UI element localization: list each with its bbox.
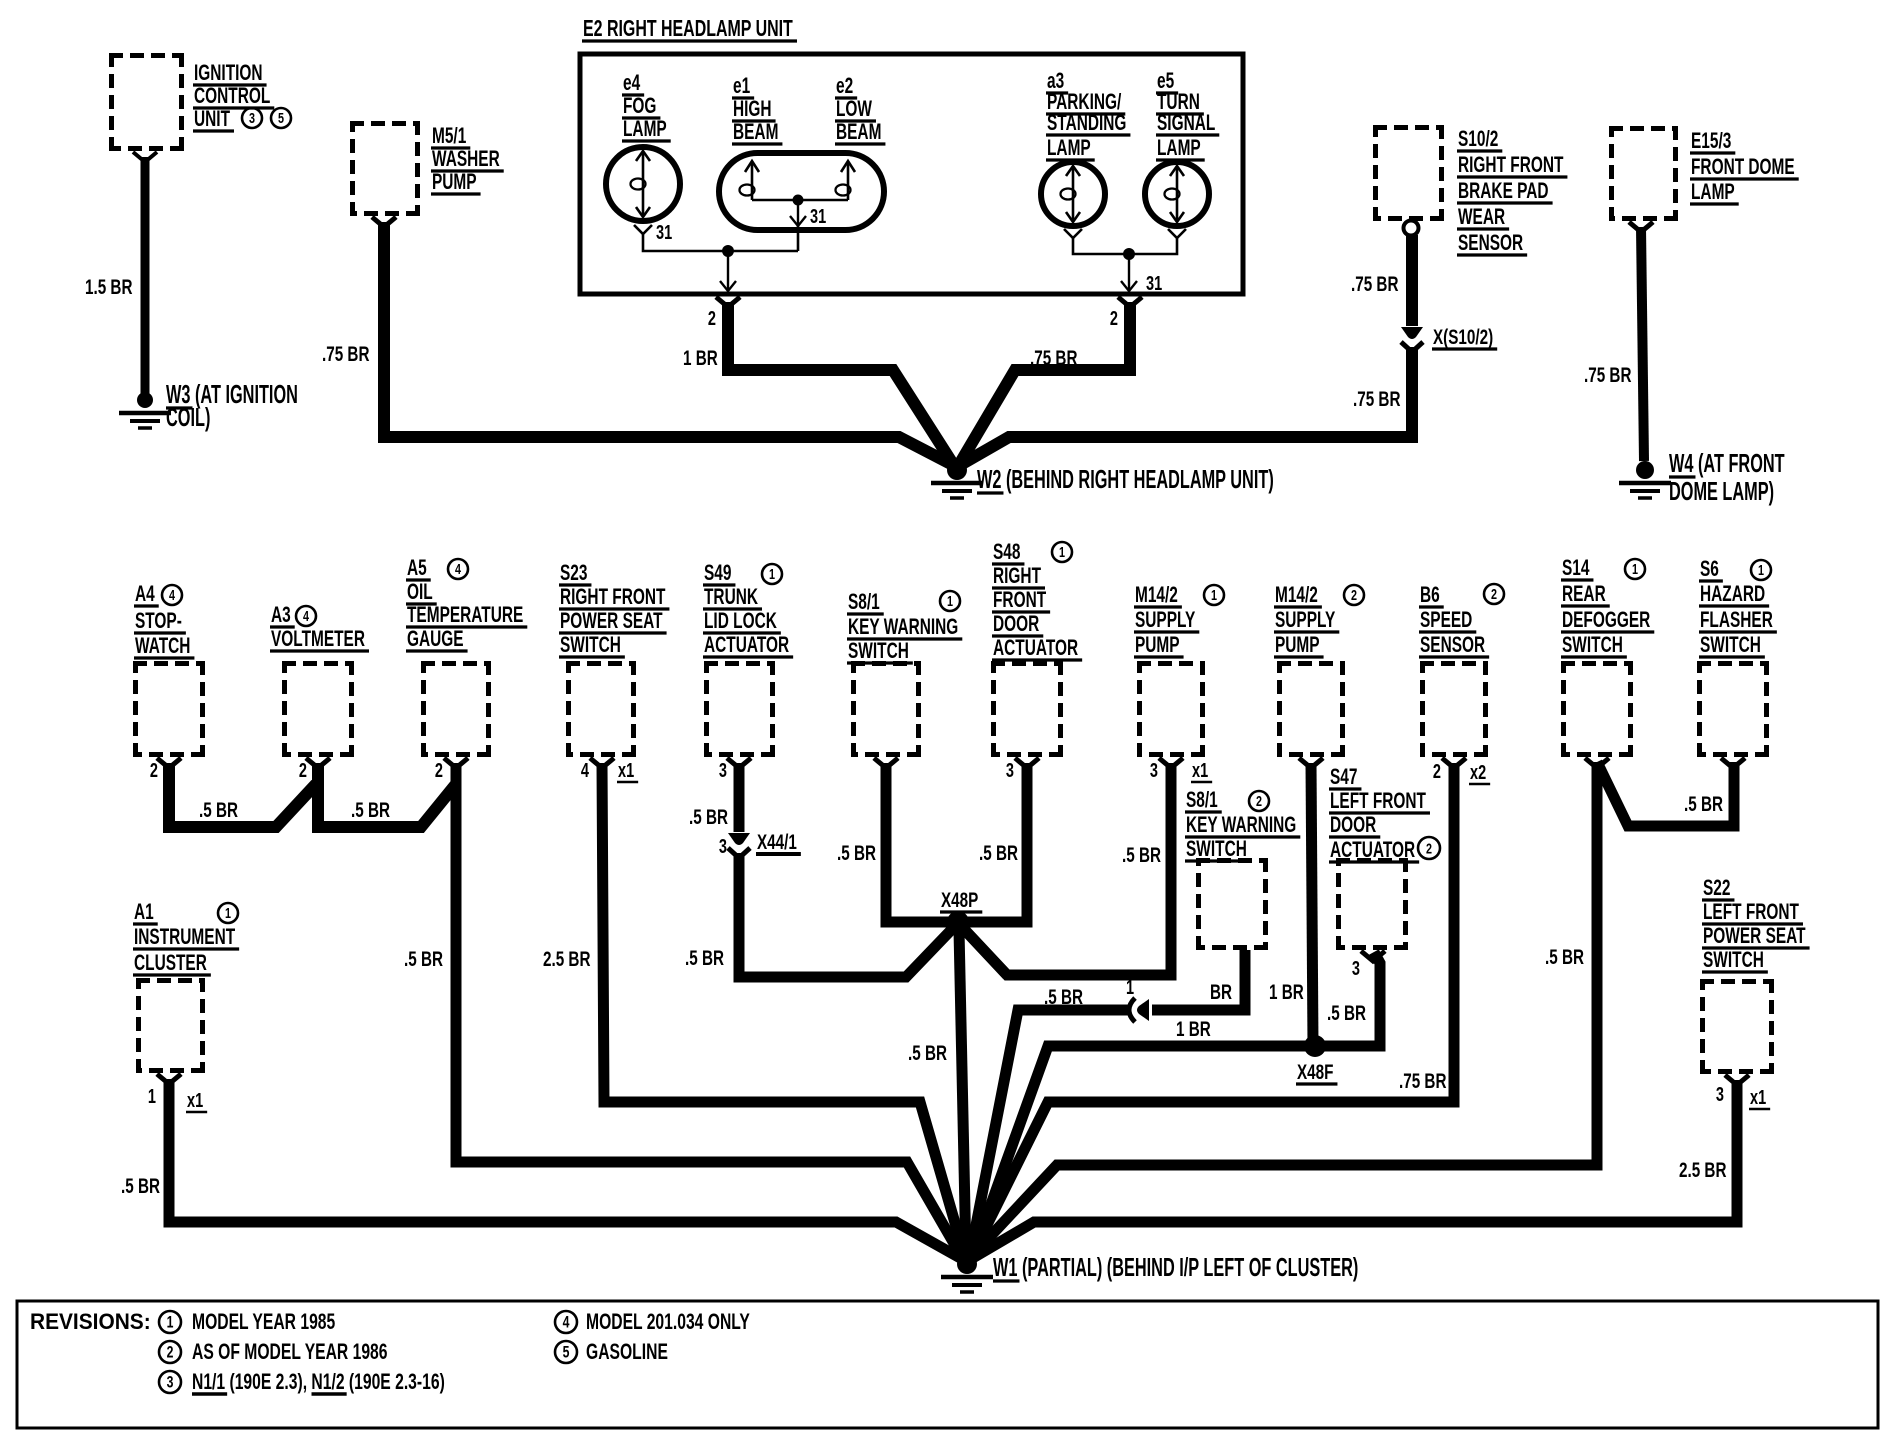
arrow right junction to pin 2, terminal 31 [1121,254,1137,291]
arrow fog junction to pin 2 [720,251,736,291]
component box S10/2 right front brake pad wear sensor [1373,125,1444,221]
svg-text:POWER SEAT: POWER SEAT [1703,924,1806,948]
label e4 fog lamp [622,71,671,141]
lamp e5 turn signal lamp [1145,162,1209,226]
svg-text:BEAM: BEAM [836,120,881,144]
svg-text:LAMP: LAMP [1157,136,1201,160]
label S49 trunk lid lock actuator [703,561,793,657]
svg-text:SWITCH: SWITCH [1562,633,1623,657]
svg-text:SENSOR: SENSOR [1458,231,1523,255]
svg-text:BRAKE PAD: BRAKE PAD [1458,179,1549,203]
revision legend 2 [159,1341,181,1363]
svg-text:CONTROL: CONTROL [194,84,271,108]
component box E15/3 front dome lamp [1609,126,1678,221]
svg-text:VOLTMETER: VOLTMETER [271,627,365,651]
svg-text:.5 BR: .5 BR [1684,792,1723,816]
svg-text:WEAR: WEAR [1458,205,1505,229]
svg-text:1: 1 [1758,561,1764,578]
svg-text:X48F: X48F [1297,1060,1333,1084]
wire A1 to W1, .5 BR [169,1079,962,1259]
pin connector A1 pin 1 [157,1074,181,1084]
svg-text:.5 BR: .5 BR [404,947,443,971]
pin connector E15/3 pin [1629,222,1653,232]
arrow beam junction 31 [790,200,806,226]
label S23 right front power seat switch [559,561,669,657]
revision mark 2 (S8/1 lower) [1249,791,1269,811]
pin connector S8/1 pin [874,758,898,768]
svg-text:S47: S47 [1330,765,1357,789]
svg-text:X44/1: X44/1 [757,830,797,854]
wire S49 lower .5 BR to X48P [739,853,955,977]
wire S22 to W1, 2.5 BR [971,1080,1737,1259]
pin connector S49 pin 3 [727,758,751,768]
svg-text:INSTRUMENT: INSTRUMENT [134,925,235,949]
label S14 rear defogger switch [1561,556,1654,657]
component box S6 hazard flasher switch [1697,661,1769,757]
svg-text:.75 BR: .75 BR [322,342,369,366]
pin connector M5/1 pin [372,217,396,227]
svg-text:S8/1: S8/1 [848,590,880,614]
component box A1 instrument cluster [136,978,205,1073]
label M5/1 washer pump [431,124,504,194]
revision legend 1 [159,1311,181,1333]
wire M14/2(1) to X48P, .5 BR [962,763,1171,975]
svg-text:S10/2: S10/2 [1458,127,1498,151]
svg-text:DOME LAMP): DOME LAMP) [1669,476,1774,506]
svg-text:E15/3: E15/3 [1691,129,1731,153]
svg-text:2: 2 [1351,586,1357,603]
svg-text:SPEED: SPEED [1420,608,1472,632]
svg-text:31: 31 [810,205,826,228]
revision mark 2 (M14/2 no.2) [1344,585,1364,605]
svg-text:LEFT FRONT: LEFT FRONT [1703,900,1799,924]
pin connector S22 pin 3 [1725,1075,1749,1085]
revision mark 4 (A3) [296,606,316,626]
terminal circle S10/2 [1404,221,1419,236]
revision mark 3 (N1) [242,108,262,128]
svg-text:4: 4 [581,759,589,782]
svg-text:ACTUATOR: ACTUATOR [993,636,1078,660]
svg-text:4: 4 [563,1314,570,1332]
wire M14/2(2) to X48F, 1 BR [1311,763,1313,1046]
wire fog lamp to junction [643,234,798,251]
revision mark 1 (S49) [762,564,782,584]
label e5 turn signal lamp [1156,69,1219,160]
svg-text:4: 4 [303,607,310,624]
svg-text:1: 1 [1126,976,1134,999]
svg-text:S22: S22 [1703,876,1730,900]
svg-text:1 BR: 1 BR [683,346,718,370]
svg-text:.5 BR: .5 BR [689,805,728,829]
label S47 left front door actuator [1329,765,1430,862]
svg-text:3: 3 [167,1374,174,1392]
svg-text:RIGHT FRONT: RIGHT FRONT [1458,153,1564,177]
svg-text:.5 BR: .5 BR [121,1174,160,1198]
junction dot right lamps [1123,248,1135,260]
svg-text:S48: S48 [993,540,1020,564]
svg-text:X(S10/2): X(S10/2) [1433,325,1493,349]
wire X48F to W1, 1 BR [972,1046,1315,1257]
svg-text:E2 RIGHT HEADLAMP UNIT: E2 RIGHT HEADLAMP UNIT [583,16,793,42]
svg-text:1: 1 [167,1314,174,1332]
svg-text:.5 BR: .5 BR [1044,985,1083,1009]
wire E2 parking/turn ground .75 BR [960,302,1130,463]
svg-text:B6: B6 [1420,583,1440,607]
revision mark 1 (A1) [218,903,238,923]
wire parking/turn to junction [1073,238,1177,254]
wire beam junction down [797,226,800,251]
svg-text:SWITCH: SWITCH [1700,633,1761,657]
svg-text:W2 (BEHIND RIGHT HEADLAMP UNIT: W2 (BEHIND RIGHT HEADLAMP UNIT) [977,464,1274,494]
svg-text:2: 2 [1256,792,1262,809]
svg-text:DEFOGGER: DEFOGGER [1562,608,1651,632]
svg-text:2: 2 [299,759,307,782]
svg-text:e4: e4 [623,71,641,95]
ground W1 [941,1254,993,1292]
lamp e1/e2 high-low beam unit [719,153,884,230]
svg-text:PUMP: PUMP [432,170,477,194]
connector 1 (inline horizontal) [1129,998,1149,1022]
svg-text:FRONT: FRONT [993,588,1046,612]
svg-text:IGNITION: IGNITION [194,61,263,85]
revision mark 1 (S48) [1052,542,1072,562]
component box S23 right front power seat switch [566,661,636,757]
wire S8/1 to X48P, .5 BR [886,763,950,922]
wire N1 to W3, 1.5 BR [141,157,150,396]
svg-text:5: 5 [278,109,284,126]
lamp a3 parking lamp [1041,162,1105,226]
label e2 low beam [835,74,885,144]
component box A5 oil temperature gauge [421,661,491,757]
svg-text:x1: x1 [1750,1086,1766,1109]
svg-text:DOOR: DOOR [993,612,1040,636]
pin connector S23 pin 4 [590,758,614,768]
wire S23 to W1, 2.5 BR [602,763,964,1254]
label S6 hazard flasher switch [1699,557,1777,657]
wire S10/2 lower .75 BR to W2 [962,347,1412,464]
svg-text:WATCH: WATCH [135,634,190,658]
svg-text:N1/1 (190E 2.3), N1/2 (190E 2.: N1/1 (190E 2.3), N1/2 (190E 2.3-16) [192,1371,445,1395]
svg-text:.5 BR: .5 BR [908,1041,947,1065]
svg-text:REVISIONS:: REVISIONS: [30,1310,151,1335]
headlamp unit box E2 [580,54,1243,294]
svg-text:GAUGE: GAUGE [407,627,464,651]
svg-text:.75 BR: .75 BR [1584,363,1631,387]
svg-text:2: 2 [708,307,716,330]
svg-text:1: 1 [1632,560,1638,577]
svg-text:31: 31 [1146,272,1162,295]
svg-text:FRONT DOME: FRONT DOME [1691,155,1795,179]
svg-text:HIGH: HIGH [733,97,772,121]
label A5 oil temperature gauge [406,556,527,651]
revision mark 2 (S47) [1418,837,1440,859]
wire S47 to X48F, .5 BR [1322,952,1380,1046]
svg-text:LOW: LOW [836,97,872,121]
svg-text:.5 BR: .5 BR [1545,945,1584,969]
svg-text:RIGHT: RIGHT [993,564,1041,588]
label S8/1 key warning switch (2) [1185,788,1300,861]
svg-text:W1 (PARTIAL) (BEHIND I/P LEFT: W1 (PARTIAL) (BEHIND I/P LEFT OF CLUSTER… [993,1252,1358,1282]
svg-text:HAZARD: HAZARD [1700,582,1765,606]
svg-text:STANDING: STANDING [1047,111,1126,135]
svg-text:2: 2 [435,759,443,782]
wire X48P branch to S8-1(2) line [962,927,1007,975]
svg-text:S23: S23 [560,561,587,585]
label S10/2 right front brake pad wear sensor [1457,127,1567,255]
component box M14/2 supply pump (2) [1277,661,1345,757]
svg-text:MODEL 201.034 ONLY: MODEL 201.034 ONLY [586,1311,750,1335]
svg-text:BEAM: BEAM [733,120,778,144]
svg-text:A3: A3 [271,603,291,627]
ground W3 [119,392,171,428]
svg-text:S6: S6 [1700,557,1719,581]
pin connector E2 left pin 2 [716,297,740,307]
svg-text:2: 2 [1110,307,1118,330]
label a3 parking/standing lamp [1046,69,1130,160]
svg-text:A1: A1 [134,900,154,924]
connector X44/1 [728,833,750,858]
svg-text:1 BR: 1 BR [1269,980,1304,1004]
label E15/3 front dome lamp [1690,129,1799,204]
svg-text:KEY WARNING: KEY WARNING [848,615,958,639]
svg-text:AS OF MODEL YEAR 1986: AS OF MODEL YEAR 1986 [192,1341,388,1365]
terminal chevron fog terminal 31 [634,225,652,234]
svg-text:.5 BR: .5 BR [837,841,876,865]
component box S8/1 key warning switch (2) [1196,858,1268,950]
svg-text:4: 4 [169,586,176,603]
svg-text:.5 BR: .5 BR [199,798,238,822]
svg-text:TEMPERATURE: TEMPERATURE [407,603,523,627]
svg-text:COIL): COIL) [166,402,210,432]
svg-text:A5: A5 [407,556,427,580]
svg-text:e2: e2 [836,74,853,98]
svg-text:.5 BR: .5 BR [979,841,1018,865]
svg-text:1: 1 [1059,543,1065,560]
component box S22 left front power seat switch [1700,979,1774,1074]
svg-text:1 BR: 1 BR [1176,1017,1211,1041]
svg-text:SUPPLY: SUPPLY [1275,608,1336,632]
svg-text:2: 2 [167,1344,174,1362]
label M14/2 supply pump (2) [1274,583,1339,657]
svg-text:.75 BR: .75 BR [1030,346,1077,370]
svg-text:WASHER: WASHER [432,147,500,171]
svg-text:M14/2: M14/2 [1135,583,1178,607]
label S22 left front power seat switch [1702,876,1810,972]
component box A3 voltmeter [282,661,354,757]
svg-text:2.5 BR: 2.5 BR [543,947,590,971]
wire M5/1 to W2, .75 BR [384,222,951,464]
svg-text:31: 31 [656,221,672,244]
terminal chevron parking terminal [1064,229,1082,238]
svg-text:LEFT FRONT: LEFT FRONT [1330,789,1426,813]
svg-text:KEY WARNING: KEY WARNING [1186,813,1296,837]
revision legend 4 [555,1311,577,1333]
svg-text:LID LOCK: LID LOCK [704,609,777,633]
svg-text:x1: x1 [187,1089,203,1112]
svg-text:2: 2 [150,759,158,782]
svg-text:PUMP: PUMP [1135,633,1180,657]
svg-text:CLUSTER: CLUSTER [134,951,207,975]
svg-text:SENSOR: SENSOR [1420,633,1485,657]
wire S10/2 upper .75 BR [1406,235,1418,326]
label S48 right front door actuator [992,540,1082,660]
svg-text:.5 BR: .5 BR [1122,843,1161,867]
svg-text:TRUNK: TRUNK [704,585,758,609]
svg-text:1: 1 [225,904,231,921]
wire S8/1(2) to connector 1, BR [1152,950,1245,1010]
svg-text:x1: x1 [1192,759,1208,782]
svg-text:LAMP: LAMP [1691,180,1735,204]
svg-text:1: 1 [148,1085,156,1108]
svg-text:x1: x1 [618,759,634,782]
revision mark 1 (S6) [1751,560,1771,580]
svg-text:2: 2 [1426,840,1432,857]
node X48P [947,911,969,933]
svg-text:x2: x2 [1470,761,1486,784]
pin connector S48 pin 3 [1015,758,1039,768]
label A3 voltmeter [270,603,369,651]
ground W2 [931,460,983,498]
pin connector S47 pin 3 [1361,951,1385,961]
pin connector M14/2(1) pin 3 [1159,758,1183,768]
pin connector A4 pin 2 [157,758,181,768]
component box M14/2 supply pump (1) [1137,661,1205,757]
svg-text:3: 3 [249,109,255,126]
svg-text:SWITCH: SWITCH [1186,837,1247,861]
svg-text:SWITCH: SWITCH [1703,948,1764,972]
component box M5/1 washer pump [350,121,420,216]
svg-text:X48P: X48P [941,888,978,912]
svg-text:LAMP: LAMP [1047,136,1091,160]
svg-text:.75 BR: .75 BR [1351,272,1398,296]
component box N1 ignition control unit [109,53,184,151]
wire B6 to W1, .75 BR [971,763,1454,1257]
label B6 speed sensor [1419,583,1489,657]
svg-text:DOOR: DOOR [1330,813,1377,837]
svg-text:M14/2: M14/2 [1275,583,1318,607]
svg-text:1: 1 [769,565,775,582]
wire A5 to W1, .5 BR [456,763,963,1259]
terminal chevron turn signal terminal [1168,229,1186,238]
pin connector S14 pin [1585,758,1609,768]
node X48F [1304,1035,1326,1057]
svg-text:S8/1: S8/1 [1186,788,1218,812]
revision mark 4 (A5) [448,559,468,579]
component box S8/1 key warning switch (1) [851,661,921,757]
wire S49 upper .5 BR [734,763,745,832]
svg-text:5: 5 [563,1344,570,1362]
svg-text:SWITCH: SWITCH [560,633,621,657]
revision mark 5 (N1) [271,108,291,128]
svg-text:PUMP: PUMP [1275,633,1320,657]
wire E2 fog/beam ground 1 BR [728,302,953,464]
svg-text:A4: A4 [135,582,155,606]
pin connector M14/2(2) pin [1299,758,1323,768]
wire S48 to X48P, .5 BR [966,763,1027,922]
revision mark 1 (M14/2 no.1) [1204,585,1224,605]
svg-text:SUPPLY: SUPPLY [1135,608,1196,632]
label A1 instrument cluster [133,900,239,975]
svg-text:M5/1: M5/1 [432,124,467,148]
revision legend 5 [555,1341,577,1363]
pin connector S6 pin [1721,758,1745,768]
lamp e4 fog lamp [606,147,680,221]
revisions legend box [17,1301,1878,1428]
svg-text:STOP-: STOP- [135,609,182,633]
pin connector A5 pin 2 [444,758,468,768]
pin connector E2 right pin 2 [1118,297,1142,307]
wire S8/1(2) connector to W1 [970,1010,1128,1256]
svg-text:3: 3 [1352,957,1360,980]
svg-text:2: 2 [1491,585,1497,602]
svg-text:S49: S49 [704,561,731,585]
svg-text:OIL: OIL [407,580,433,604]
ground W4 [1619,461,1671,498]
svg-text:POWER SEAT: POWER SEAT [560,609,663,633]
svg-text:S14: S14 [1562,556,1590,580]
label S8/1 key warning switch (1) [847,590,962,663]
svg-text:.75 BR: .75 BR [1399,1069,1446,1093]
label N1 ignition control unit [193,61,274,131]
svg-text:REAR: REAR [1562,582,1606,606]
connector X(S10/2) [1401,327,1423,352]
svg-text:2: 2 [1433,760,1441,783]
svg-text:3: 3 [719,759,727,782]
revision mark 1 (S8/1) [940,591,960,611]
component box S48 right front door actuator [991,661,1063,757]
component box S49 trunk lid lock actuator [704,661,775,757]
svg-text:UNIT: UNIT [194,107,230,131]
svg-text:3: 3 [1716,1083,1724,1106]
label A4 stop-watch [134,582,194,658]
svg-text:.5 BR: .5 BR [1327,1001,1366,1025]
component box S14 rear defogger switch [1561,661,1633,757]
pin connector A3 pin 2 [306,758,330,768]
svg-text:3: 3 [719,835,727,858]
svg-text:MODEL YEAR 1985: MODEL YEAR 1985 [192,1311,336,1335]
svg-text:.5 BR: .5 BR [351,798,390,822]
revision mark 2 (B6) [1484,584,1504,604]
svg-text:W4 (AT FRONT: W4 (AT FRONT [1669,448,1785,478]
wire A4 to A3, .5 BR [169,763,316,827]
svg-text:BR: BR [1210,980,1232,1004]
revision mark 1 (S14) [1625,559,1645,579]
component box B6 speed sensor [1420,661,1488,757]
svg-text:LAMP: LAMP [623,117,667,141]
revision legend 3 [159,1371,181,1393]
wire S14 to S6, .5 BR [1597,762,1734,826]
svg-text:ACTUATOR: ACTUATOR [704,633,789,657]
svg-text:SWITCH: SWITCH [848,639,909,663]
wire S14 to W1, .5 BR [970,762,1597,1258]
svg-text:FOG: FOG [623,94,656,118]
pin connector N1 pin [133,152,157,162]
label M14/2 supply pump (1) [1134,583,1199,657]
svg-text:1.5 BR: 1.5 BR [85,275,132,299]
component box A4 stop-watch [133,661,205,757]
svg-text:.5 BR: .5 BR [685,946,724,970]
wire A3 to A5, .5 BR [318,763,456,827]
revision mark 4 (A4) [162,585,182,605]
svg-text:2.5 BR: 2.5 BR [1679,1158,1726,1182]
svg-text:3: 3 [1150,759,1158,782]
svg-text:e1: e1 [733,74,751,98]
svg-text:RIGHT FRONT: RIGHT FRONT [560,585,666,609]
svg-text:4: 4 [455,560,462,577]
svg-text:1: 1 [947,592,953,609]
svg-text:FLASHER: FLASHER [1700,608,1773,632]
junction dot left lamps [722,245,734,257]
